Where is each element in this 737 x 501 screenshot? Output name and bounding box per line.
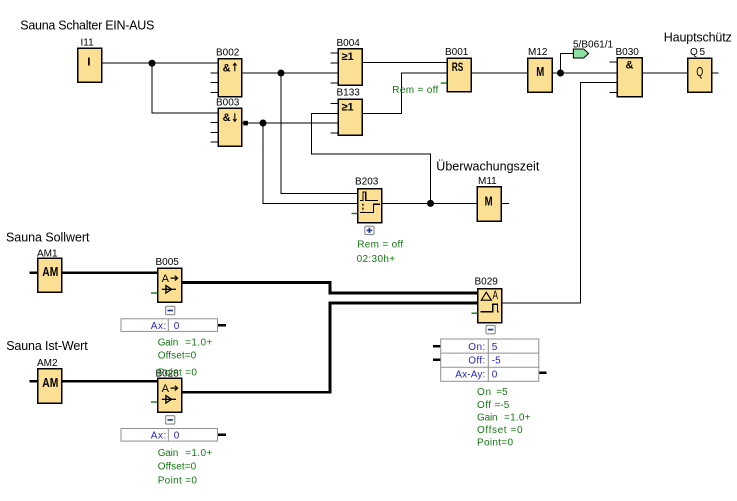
svg-text:B004: B004 <box>337 38 361 49</box>
svg-text:M11: M11 <box>478 176 497 187</box>
svg-text:&: & <box>223 63 231 75</box>
svg-text:A: A <box>162 273 170 285</box>
svg-text:Rem = off: Rem = off <box>357 240 403 251</box>
svg-text:Hauptschütz: Hauptschütz <box>664 31 732 45</box>
svg-text:B030: B030 <box>616 47 640 58</box>
svg-text:AM2: AM2 <box>37 358 58 369</box>
svg-text:B133: B133 <box>337 88 361 99</box>
svg-text:A: A <box>162 383 170 395</box>
svg-text:≥1: ≥1 <box>342 51 354 63</box>
svg-text:B029: B029 <box>475 276 499 287</box>
svg-text:5: 5 <box>492 342 498 353</box>
svg-text:0: 0 <box>492 370 498 381</box>
svg-text:M: M <box>485 194 493 209</box>
svg-text:5/B061/1: 5/B061/1 <box>573 39 613 50</box>
svg-text:Offset =0: Offset =0 <box>477 425 523 436</box>
svg-text:On:: On: <box>468 342 485 353</box>
svg-text:&: & <box>626 60 634 72</box>
svg-text:A: A <box>493 288 499 302</box>
svg-text:0: 0 <box>174 431 180 442</box>
svg-text:B203: B203 <box>355 177 379 188</box>
svg-text:M12: M12 <box>528 47 548 58</box>
svg-text:=-5: =-5 <box>495 400 510 411</box>
svg-text:=1.0+: =1.0+ <box>504 412 531 423</box>
svg-text:Ax:: Ax: <box>151 321 167 332</box>
svg-text:Gain: Gain <box>477 412 498 423</box>
svg-text:=5: =5 <box>496 387 508 398</box>
svg-text:≥1: ≥1 <box>342 102 354 114</box>
svg-text:Sauna Schalter EIN-AUS: Sauna Schalter EIN-AUS <box>20 19 154 33</box>
svg-text:Rem = off: Rem = off <box>392 85 438 96</box>
svg-text:-5: -5 <box>492 356 501 367</box>
svg-text:Sauna Ist-Wert: Sauna Ist-Wert <box>6 339 88 353</box>
svg-text:B005: B005 <box>156 257 180 268</box>
svg-text:Off: Off <box>477 400 491 411</box>
svg-text:I11: I11 <box>81 38 95 49</box>
svg-text:=1.0+: =1.0+ <box>185 337 212 348</box>
svg-text:B003: B003 <box>216 98 240 109</box>
svg-text:=1.0+: =1.0+ <box>185 448 212 459</box>
svg-text:Offset=0: Offset=0 <box>158 350 197 361</box>
svg-text:AM: AM <box>42 375 58 390</box>
svg-text:Point =0: Point =0 <box>158 476 198 487</box>
svg-text:Sauna Sollwert: Sauna Sollwert <box>6 230 90 244</box>
svg-text:M: M <box>536 64 544 79</box>
svg-text:Off:: Off: <box>468 356 485 367</box>
svg-text:B001: B001 <box>445 47 469 58</box>
svg-text:AM1: AM1 <box>37 248 58 259</box>
svg-text:&: & <box>223 112 231 124</box>
svg-text:Point =0: Point =0 <box>158 368 198 379</box>
svg-text:Ax-Ay:: Ax-Ay: <box>455 370 485 381</box>
svg-text:AM: AM <box>42 264 58 279</box>
svg-text:Gain: Gain <box>158 448 179 459</box>
svg-text:B002: B002 <box>216 48 240 59</box>
svg-text:Offset=0: Offset=0 <box>158 462 197 473</box>
svg-text:02:30h+: 02:30h+ <box>357 254 396 265</box>
svg-text:Ax:: Ax: <box>151 431 167 442</box>
svg-text:Q5: Q5 <box>690 47 705 58</box>
svg-text:Überwachungszeit: Überwachungszeit <box>436 159 540 173</box>
svg-text:Q: Q <box>696 64 703 79</box>
svg-text:0: 0 <box>174 321 180 332</box>
svg-text:RS: RS <box>452 62 464 74</box>
svg-text:Gain: Gain <box>158 337 179 348</box>
svg-text:Point=0: Point=0 <box>477 438 513 449</box>
svg-text:On: On <box>477 387 491 398</box>
